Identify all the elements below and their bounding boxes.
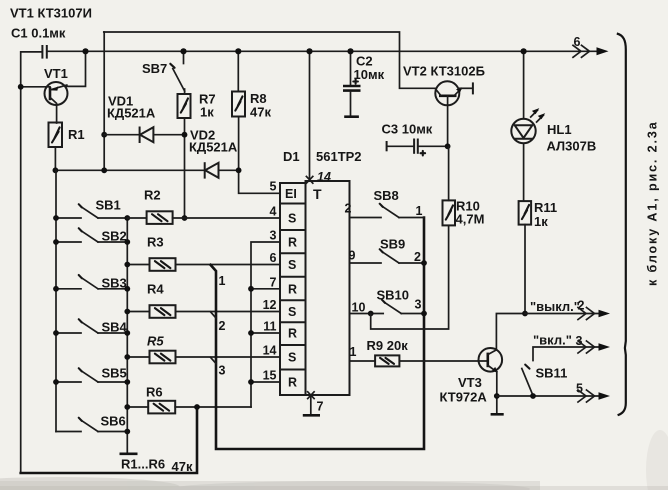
wire upper link VD1-node to VT2 base	[104, 32, 436, 88]
resistor R6 (touch plate)	[124, 385, 251, 414]
svg-text:561ТР2: 561ТР2	[316, 149, 362, 164]
junction dot R bus pin7	[248, 286, 254, 292]
svg-text:3: 3	[270, 229, 277, 243]
wire bottom common rail	[21, 407, 197, 473]
svg-text:R11: R11	[534, 200, 557, 215]
svg-text:47к: 47к	[250, 105, 271, 120]
junction dot node X on VD2 row	[101, 167, 107, 173]
svg-text:S: S	[288, 212, 296, 226]
resistor R5 (touch plate)	[124, 334, 280, 364]
scan shading blobs	[0, 430, 668, 490]
wire R8 top to rail	[237, 51, 239, 91]
pin 14 power line with cross	[306, 51, 331, 184]
junction dot VT1 base on left rail	[18, 84, 24, 90]
resistor R10 4.7M	[443, 199, 485, 227]
switch SB7	[142, 51, 185, 94]
junction dot R8 on rail	[235, 48, 241, 54]
wire bundle net 1-2-3 (left side)	[211, 218, 425, 450]
wire right touch bus	[126, 218, 128, 453]
svg-text:SB9: SB9	[380, 237, 405, 252]
svg-text:1: 1	[219, 274, 226, 288]
svg-text:12: 12	[263, 298, 277, 312]
switch SB5	[53, 366, 130, 385]
svg-text:VT2 КТ3102Б: VT2 КТ3102Б	[403, 64, 485, 79]
switch SB9	[350, 237, 427, 266]
wire C1 left to left rail	[21, 52, 42, 473]
junction dot SB7 on rail	[180, 48, 186, 54]
wire R1 bottom to VD2 row	[54, 147, 56, 170]
svg-text:1к: 1к	[200, 105, 214, 120]
svg-text:SB1: SB1	[96, 198, 121, 213]
label k bloku A1 ris 2.3a	[646, 120, 660, 286]
label R1...R6 47k	[121, 457, 193, 475]
IC D1 561TP2 body	[280, 181, 350, 395]
svg-text:КД521А: КД521А	[189, 140, 238, 155]
svg-text:47к: 47к	[172, 459, 193, 474]
ground under touch bus	[120, 452, 138, 455]
junction dot node X on VD1 row	[101, 132, 107, 138]
junction dot pin10 branch	[368, 311, 374, 317]
svg-text:9: 9	[349, 249, 356, 263]
svg-text:R: R	[288, 376, 297, 390]
junction dot SB11 bottom	[530, 393, 536, 399]
svg-text:R2: R2	[144, 188, 161, 203]
capacitor C1 0.1mk	[11, 26, 66, 59]
resistor R3 (touch plate)	[124, 235, 280, 271]
svg-text:R1: R1	[68, 127, 85, 142]
svg-text:VT1 КТ3107И: VT1 КТ3107И	[10, 6, 92, 21]
switch SB11	[522, 365, 568, 396]
svg-text:к блоку А1, рис. 2.3а: к блоку А1, рис. 2.3а	[646, 120, 660, 286]
svg-text:S: S	[288, 305, 296, 319]
svg-text:АЛ307В: АЛ307В	[547, 139, 597, 154]
switch SB8	[350, 188, 425, 218]
connector bracket to block A1	[617, 34, 626, 416]
label vykl 2	[530, 299, 585, 315]
chevron vykl row	[578, 308, 610, 320]
svg-text:VT1: VT1	[44, 66, 68, 81]
svg-text:1к: 1к	[534, 214, 548, 229]
wire R8 bottom to EI pin 5	[239, 117, 280, 194]
switch SB1	[53, 198, 130, 221]
wire VD2 row	[55, 169, 204, 171]
transistor VT2 KT3102B (NPN)	[403, 64, 485, 147]
wire VT3 emitter to ground and row5	[491, 372, 504, 415]
transistor VT3 KT972A (NPN)	[440, 348, 503, 405]
svg-text:3: 3	[219, 364, 226, 378]
svg-text:T: T	[313, 186, 322, 202]
svg-text:D1: D1	[283, 149, 300, 164]
wire vykl output row	[525, 313, 600, 315]
svg-text:SB8: SB8	[374, 188, 399, 203]
svg-text:14: 14	[317, 170, 331, 184]
wire VT3 collector up to vykl node	[496, 314, 525, 351]
svg-text:4: 4	[270, 205, 277, 219]
svg-text:VT3: VT3	[458, 375, 482, 390]
svg-text:R4: R4	[147, 282, 164, 297]
svg-text:S: S	[288, 351, 296, 365]
svg-text:C1 0.1мк: C1 0.1мк	[11, 26, 66, 41]
node X vertical (VD1 cathode / VD2 row / upper link)	[103, 32, 105, 170]
svg-text:HL1: HL1	[547, 122, 572, 137]
transistor VT1 KT3107I (PNP)	[10, 6, 92, 124]
wire R7 bottom through VD1 dot down to pin4 row	[184, 118, 186, 218]
junction dot R bus pin15	[248, 379, 254, 385]
chevron pin6 top	[573, 45, 609, 57]
junction dot VT3 emitter row5	[494, 393, 500, 399]
svg-text:1: 1	[350, 345, 357, 359]
svg-text:1: 1	[416, 204, 423, 218]
wire pin11 R input	[251, 332, 280, 334]
resistor R9 20k	[350, 338, 488, 366]
svg-text:10: 10	[352, 301, 366, 315]
chevron row 5	[578, 390, 610, 402]
svg-text:2: 2	[219, 319, 226, 333]
wire pin7 R input	[251, 288, 280, 290]
wire top supply rail	[47, 50, 597, 52]
svg-text:2: 2	[345, 202, 352, 216]
resistor R8 47k (sensor)	[232, 91, 271, 120]
junction dot C1/VT1 emitter on rail	[82, 48, 88, 54]
svg-text:3: 3	[415, 298, 422, 312]
svg-text:SB5: SB5	[102, 366, 127, 381]
svg-text:10мк: 10мк	[354, 67, 385, 82]
svg-text:2: 2	[414, 250, 421, 264]
svg-text:R3: R3	[147, 235, 164, 250]
svg-text:15: 15	[263, 369, 277, 383]
svg-text:R6: R6	[146, 385, 163, 400]
wire vkl output row	[533, 347, 600, 361]
wire R11 bottom to vykl node	[524, 225, 526, 314]
svg-text:7: 7	[270, 275, 277, 289]
diode VD1 KD521A	[104, 94, 184, 144]
capacitor C3 10mk	[382, 122, 448, 156]
junction dot R7/VD1 anode	[182, 132, 188, 138]
wire VT2 collector to R10	[448, 146, 450, 200]
wire R bus (pins 3,7,11,15 to R6 row)	[251, 242, 280, 407]
svg-text:"выкл.": "выкл."	[530, 299, 580, 314]
switch SB3	[53, 275, 130, 292]
resistor R11 1k	[519, 200, 558, 229]
junction dot C2 on rail	[347, 48, 353, 54]
junction dot HL1 on rail	[521, 48, 527, 54]
junction dot C3/VT2 collector	[445, 143, 451, 149]
svg-text:SB11: SB11	[536, 366, 568, 381]
junction dot R7 branch on pin4 row	[182, 215, 188, 221]
label vkl 3	[533, 333, 583, 349]
svg-text:6: 6	[270, 251, 277, 265]
wire pin15 R input	[251, 381, 280, 383]
resistor R1 (sensor)	[49, 123, 85, 148]
svg-text:R: R	[288, 327, 297, 341]
svg-text:SB6: SB6	[101, 414, 126, 429]
svg-text:S: S	[288, 258, 296, 272]
svg-text:7: 7	[317, 400, 324, 414]
junction dot VD2 anode / R8 line	[236, 167, 242, 173]
resistor R2 (touch plate)	[127, 188, 280, 224]
LED HL1 AL307V	[511, 51, 596, 201]
svg-text:R9 20к: R9 20к	[367, 338, 409, 353]
switch SB6	[56, 414, 130, 435]
junction dot vykl node	[522, 311, 528, 317]
svg-text:C3 10мк: C3 10мк	[382, 122, 433, 137]
diode VD2 KD521A	[189, 128, 239, 179]
resistor R7 1k (sensor)	[178, 92, 216, 120]
svg-text:КД521А: КД521А	[107, 106, 156, 121]
junction dot pin14 on rail	[306, 48, 312, 54]
svg-text:R: R	[288, 236, 297, 250]
svg-text:14: 14	[263, 344, 277, 358]
capacitor C2 10mk	[343, 51, 385, 116]
switch SB4	[53, 319, 130, 336]
svg-text:EI: EI	[285, 187, 297, 201]
svg-text:R: R	[288, 282, 297, 296]
svg-text:R5: R5	[147, 334, 164, 349]
wire row 5 output	[497, 395, 600, 397]
wire left touch bus (R1 bottom to SB column)	[55, 170, 57, 431]
switch SB2	[53, 228, 130, 245]
resistor R4 (touch plate)	[124, 282, 280, 318]
chevron vkl row	[578, 341, 610, 353]
svg-text:4,7М: 4,7М	[456, 212, 485, 227]
svg-text:R1...R6: R1...R6	[121, 457, 165, 472]
pin 7 ground with cross	[303, 392, 324, 416]
svg-text:КТ972А: КТ972А	[440, 390, 488, 405]
junction dot R bus pin11	[248, 330, 254, 336]
scan shading bottom	[0, 481, 668, 490]
junction dot R1 bottom	[53, 167, 59, 173]
svg-text:5: 5	[270, 180, 277, 194]
svg-text:11: 11	[263, 320, 276, 334]
wire R10 bottom to pin10 branch	[371, 225, 449, 329]
svg-text:"вкл.": "вкл."	[533, 333, 572, 348]
switch SB10	[350, 288, 427, 317]
svg-text:SB7: SB7	[142, 61, 167, 76]
